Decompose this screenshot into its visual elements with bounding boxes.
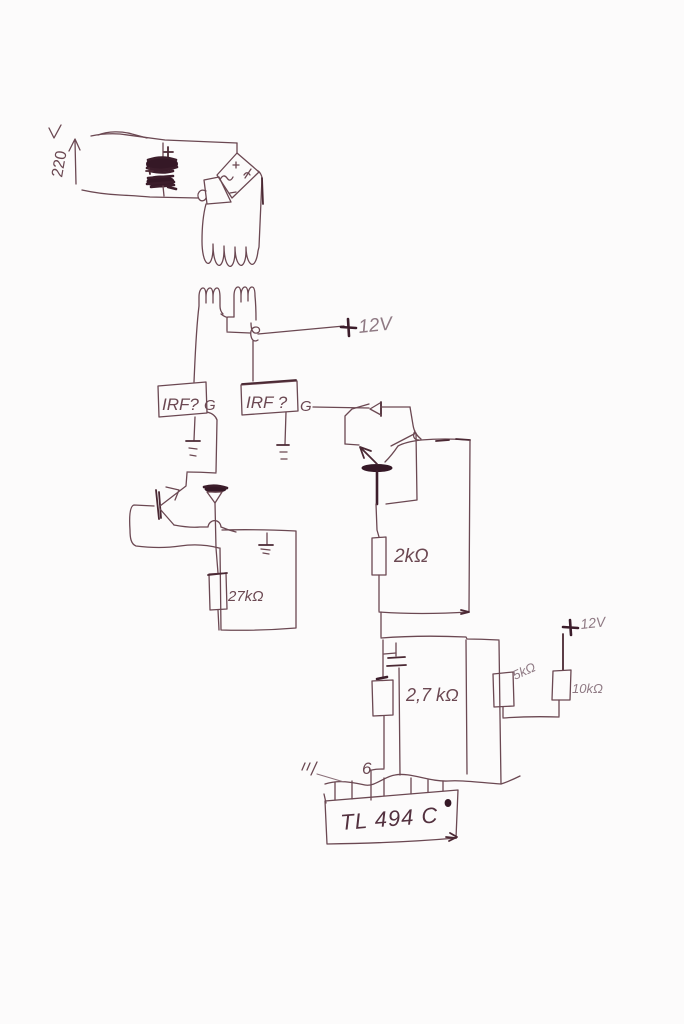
svg-text:220: 220 — [49, 149, 70, 178]
wire bottom primary — [82, 190, 206, 201]
wire diode2 on — [381, 407, 421, 440]
wire mark to pin row — [317, 774, 344, 782]
wire secondary to IRF2 — [252, 341, 254, 381]
transformer core flap — [204, 177, 231, 204]
diode D1 — [204, 486, 227, 503]
resistor R2 2k — [372, 537, 429, 575]
label +12V top — [341, 313, 395, 338]
svg-text:27kΩ: 27kΩ — [227, 588, 264, 605]
lower loop top edge — [381, 636, 499, 640]
svg-text:G: G — [204, 397, 216, 414]
pin row wavy wire — [325, 774, 520, 785]
ground in left rectangle — [259, 533, 273, 554]
svg-text:2,7 kΩ: 2,7 kΩ — [405, 685, 459, 705]
wire R3 to pin 6 — [371, 716, 384, 800]
wire IRF1 source down — [194, 417, 195, 440]
svg-text:6: 6 — [362, 759, 372, 778]
svg-text:2kΩ: 2kΩ — [393, 546, 429, 567]
resistor R1 27k — [208, 573, 264, 610]
loop rectangle right — [379, 440, 470, 614]
transformer secondary winding right — [234, 287, 256, 320]
svg-text:IRF ?: IRF ? — [246, 393, 288, 412]
mosfet U1 box IRF? left — [158, 382, 207, 417]
wire to R3 — [377, 640, 387, 679]
wire R1 to bottom edge — [218, 610, 219, 630]
lower loop right vertical — [499, 641, 501, 784]
wire gate2 to diode — [313, 407, 369, 408]
resistor R5 10k — [552, 634, 603, 716]
wire junction down to lower loop — [380, 612, 382, 637]
ground below IRF2 — [277, 445, 289, 459]
svg-text:IRF?: IRF? — [162, 395, 199, 414]
wire base loop Q1 — [130, 505, 219, 548]
wire diode to resistor — [215, 503, 218, 573]
IC U3 TL494 box — [324, 790, 458, 844]
svg-text:10kΩ: 10kΩ — [572, 681, 603, 696]
arrow 220V — [69, 139, 80, 184]
capacitor C1 — [146, 143, 178, 196]
wire R4 bottom — [503, 707, 559, 718]
label 11/ marks — [302, 762, 317, 775]
wire top primary — [91, 132, 237, 143]
resistor R3 2.7k — [372, 680, 459, 716]
lower loop middle vertical — [466, 640, 467, 774]
node center tap — [221, 314, 250, 333]
svg-text:12V: 12V — [580, 613, 608, 632]
wire gate1 down — [207, 412, 217, 472]
transformer primary winding — [202, 171, 263, 266]
wire base horizontal right — [421, 439, 470, 441]
transformer secondary winding left — [194, 288, 223, 382]
wire crossing hop to +12V — [251, 323, 344, 341]
label 220V — [49, 125, 71, 179]
transistor Q1 — [156, 473, 236, 532]
ground below IRF1 — [186, 441, 200, 456]
resistor R4 5k — [493, 659, 538, 707]
capacitor C2 — [384, 643, 406, 775]
bridge rectifier BR1 — [217, 143, 259, 198]
IC pin stubs — [335, 778, 443, 800]
wire collector horizontal Q1 — [187, 472, 216, 473]
mosfet U2 box IRF? right — [241, 380, 298, 415]
loop rectangle left — [220, 530, 296, 631]
wire flap loop right — [386, 433, 417, 504]
svg-text:5kΩ: 5kΩ — [510, 659, 538, 682]
diode D2 — [370, 402, 381, 416]
svg-text:G: G — [300, 398, 312, 415]
label +12V right — [563, 613, 608, 635]
transistor Q2 — [345, 404, 421, 537]
svg-text:12V: 12V — [357, 313, 395, 338]
wire IRF2 source down — [285, 412, 286, 444]
wire R2 down — [378, 575, 380, 611]
svg-text:TL 494 C: TL 494 C — [339, 802, 439, 835]
